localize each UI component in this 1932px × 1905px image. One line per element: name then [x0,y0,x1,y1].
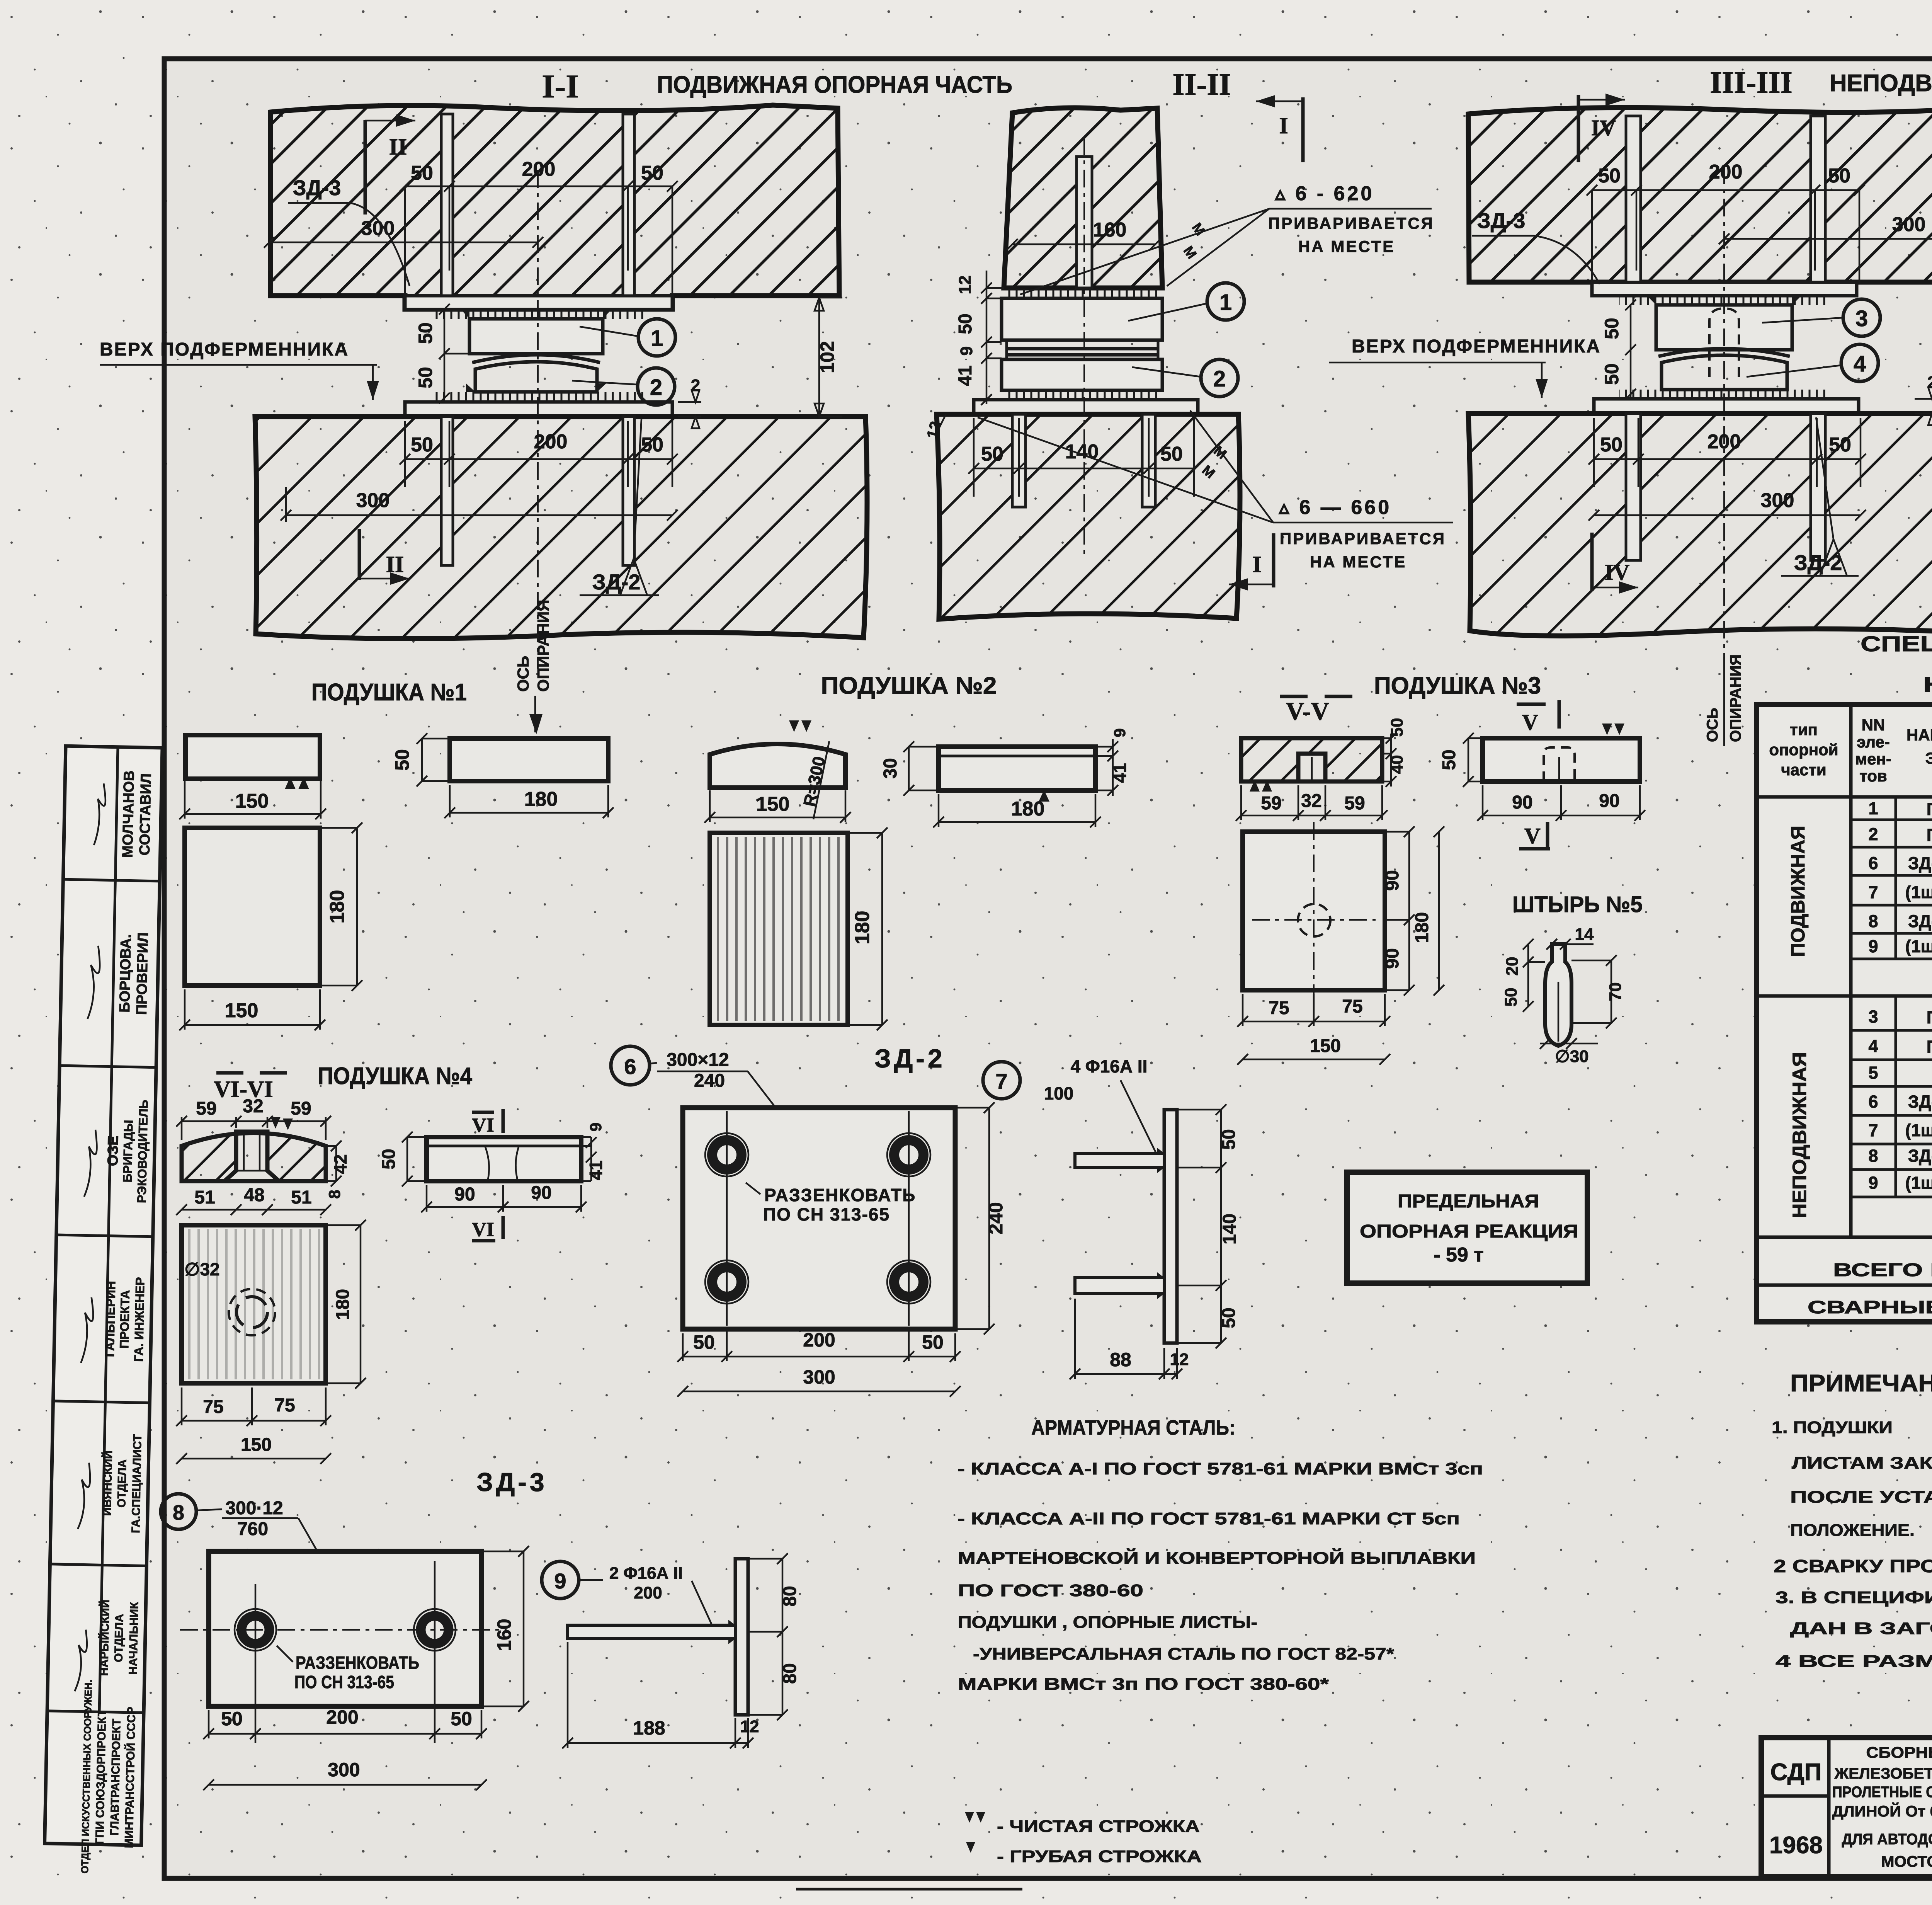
svg-text:АРМАТУРНАЯ СТАЛЬ:: АРМАТУРНАЯ СТАЛЬ: [1031,1416,1235,1439]
svg-text:50: 50 [1219,1129,1239,1149]
svg-text:ПО ГОСТ 380-60: ПО ГОСТ 380-60 [958,1581,1143,1600]
ZD-3 dim 160 right [481,1546,529,1712]
svg-text:300: 300 [356,489,390,512]
vsego row [1833,1248,1932,1292]
svg-text:VI: VI [472,1219,494,1241]
pad2 thin view dims 9 41 [1095,728,1130,796]
svg-text:ИВЯНСКИЙ: ИВЯНСКИЙ [100,1450,115,1516]
II-II weld note top 6-620 [1020,182,1434,295]
VI-VI hatched arched section [182,1117,326,1181]
svg-text:СПЕЦИФИКАЦИЯ И ВЫБОРКА МЕТА: СПЕЦИФИКАЦИЯ И ВЫБОРКА МЕТАЛЛА [1861,632,1932,656]
svg-text:2: 2 [691,376,700,395]
I-I lower concrete block (hatched) [255,417,867,638]
stamp cell gl inzhener [103,1277,147,1362]
svg-text:(1шт): (1шт) [1905,1120,1932,1140]
ZD-2 plate plan [683,1108,955,1329]
svg-text:ГА. ИНЖЕНЕР: ГА. ИНЖЕНЕР [131,1277,147,1362]
svg-text:6: 6 [624,1054,636,1079]
I-I balloon 2 [572,368,675,405]
svg-text:IV: IV [1605,560,1630,585]
item7 dims 88 12 bottom [1070,1299,1189,1379]
svg-text:▵ 6 — 660: ▵ 6 — 660 [1278,496,1391,519]
svg-text:59: 59 [1261,793,1281,814]
svg-text:50: 50 [1598,165,1621,187]
svg-text:1968: 1968 [1769,1832,1823,1859]
III-III axis of bearing rotated label [1704,654,1744,746]
svg-text:ЗД-2: ЗД-2 [1908,853,1932,873]
svg-text:9: 9 [1111,728,1129,737]
svg-text:опорной: опорной [1769,741,1838,759]
III-III embedded plate ZD-3 [1592,282,1857,305]
II-II anchor rod lower left [1012,414,1026,507]
svg-text:50: 50 [981,443,1003,465]
svg-text:50: 50 [411,434,433,456]
shtyr dim 70 right [1571,955,1625,1028]
I-I top dimension chain 50 200 50 [400,158,678,298]
svg-text:51: 51 [291,1187,311,1208]
svg-text:ДАН В ЗАГОТОВКЕ.: ДАН В ЗАГОТОВКЕ. [1790,1619,1932,1638]
svg-text:ВЕРХ ПОДФЕРМЕННИКА: ВЕРХ ПОДФЕРМЕННИКА [100,339,349,360]
pad2 thin view dim 30 [880,741,939,796]
I-I vertical dims 50 50 pads [415,304,469,403]
ZD-3 dims 50 200 50 [203,1706,487,1743]
pad2 thin view dim 180 [933,794,1101,827]
svg-text:50: 50 [1439,749,1459,770]
svg-text:- КЛАССА А-I ПО ГОСТ 578: - КЛАССА А-I ПО ГОСТ 5781-61 МАРКИ ВМСт … [957,1459,1483,1478]
svg-text:200: 200 [803,1329,835,1351]
svg-text:90: 90 [454,1184,475,1205]
III-III label ZD-2 with flag [1781,417,1859,576]
svg-text:50: 50 [1219,1307,1239,1328]
svg-text:40: 40 [1388,755,1406,774]
III-III curved interface [1658,349,1790,356]
svg-text:50: 50 [1600,434,1622,456]
svg-text:- КЛАССА А-II ПО ГОСТ 57: - КЛАССА А-II ПО ГОСТ 5781-61 МАРКИ СТ 5… [957,1509,1460,1528]
pad2 plan view (streaked) [710,833,848,1025]
svg-text:ЗД-3: ЗД-3 [1908,1146,1932,1166]
stamp cell rukovoditel [104,1099,150,1204]
pad2 plan dim 180 [848,827,888,1030]
limit reaction box [1347,1172,1587,1283]
I-I right dim 102 [815,298,842,417]
svg-text:РАЗЗЕНКОВАТЬ: РАЗЗЕНКОВАТЬ [296,1653,419,1673]
note 1 line 1 with balloons [1772,1408,1932,1438]
III-III section mark IV bottom [1592,533,1638,594]
item9 weld triangles [728,1620,735,1644]
svg-text:СОСТАВИЛ: СОСТАВИЛ [137,773,155,856]
svg-text:41: 41 [1110,763,1130,783]
I-I embedded plate ZD-3 under upper block [405,296,672,319]
svg-text:760: 760 [237,1519,268,1539]
svg-text:эле-: эле- [1857,733,1890,751]
svg-text:300: 300 [328,1759,360,1781]
svg-text:2: 2 [650,375,662,400]
svg-text:300: 300 [1892,213,1926,236]
svg-text:НЕПОДВИЖНАЯ: НЕПОДВИЖНАЯ [1789,1052,1810,1218]
svg-text:БОРЦОВА.: БОРЦОВА. [117,934,134,1013]
svg-text:8: 8 [1868,1146,1878,1166]
svg-text:200: 200 [1708,431,1741,453]
svg-text:4 ВСЕ РАЗМЕРЫ В ММ.: 4 ВСЕ РАЗМЕРЫ В ММ. [1776,1652,1932,1671]
pad1 side view B [450,739,608,781]
VI-VI dims 59 32 59 top [176,1096,331,1140]
svg-text:ПОДУШКА №1: ПОДУШКА №1 [311,679,467,706]
item7 weld triangles [1157,1148,1164,1299]
II-II lower concrete block (hatched) [937,414,1240,619]
svg-text:- ГРУБАЯ СТРОЖКА: - ГРУБАЯ СТРОЖКА [997,1847,1202,1866]
pad3 V-V hatched section [1241,738,1382,792]
svg-text:1: 1 [1868,798,1878,818]
svg-text:50: 50 [391,749,413,771]
svg-text:8: 8 [325,1190,344,1198]
svg-text:(1шт): (1шт) [1905,882,1932,902]
I-I weld serration above lower plate [431,392,647,402]
svg-text:9: 9 [587,1122,605,1131]
svg-text:ДЛЯ АВТОДОРОЖНЫХ: ДЛЯ АВТОДОРОЖНЫХ [1842,1831,1932,1848]
pad3 plan view [1243,822,1385,1021]
svg-text:300: 300 [1761,489,1794,512]
I-I section mark II bottom [359,529,410,585]
svg-text:∅32: ∅32 [184,1259,219,1279]
svg-text:50: 50 [1828,165,1850,187]
svg-text:ПОЛОЖЕНИЕ.: ПОЛОЖЕНИЕ. [1790,1521,1915,1540]
svg-text:ПРОЕКТА: ПРОЕКТА [117,1290,132,1349]
svg-text:88: 88 [1110,1349,1131,1370]
III-III balloon 4 [1747,344,1878,381]
svg-text:I: I [1279,113,1288,138]
svg-text:ЗД-3: ЗД-3 [1477,208,1526,233]
svg-text:ПРИВАРИВАЕТСЯ: ПРИВАРИВАЕТСЯ [1280,529,1446,548]
svg-text:160: 160 [493,1619,515,1651]
svg-text:140: 140 [1065,441,1099,463]
svg-text:75: 75 [1269,998,1289,1018]
I-I axis of bearing rotated label [514,600,552,734]
svg-text:ОПОРНАЯ РЕАКЦИЯ: ОПОРНАЯ РЕАКЦИЯ [1360,1221,1578,1242]
item9 dim 80 80 right [748,1553,800,1720]
svg-text:59: 59 [1344,793,1365,814]
I-I label top of pier text [100,339,379,400]
I-I upper concrete block (hatched) [270,105,839,309]
I-I balloon 1 [580,319,675,356]
svg-text:ЗД-3: ЗД-3 [1908,911,1932,931]
svg-text:ОСЬ: ОСЬ [514,656,532,692]
svg-text:140: 140 [1219,1214,1240,1244]
svg-text:150: 150 [235,790,269,812]
svg-text:ПОДУШКА №4: ПОДУШКА №4 [318,1063,472,1090]
svg-text:160: 160 [1093,219,1127,241]
svg-text:- ЧИСТАЯ СТРОЖКА: - ЧИСТАЯ СТРОЖКА [997,1817,1200,1836]
svg-text:4: 4 [1868,1036,1878,1056]
ZD-3 washer right [414,1609,456,1651]
svg-text:50: 50 [1601,318,1622,339]
spec header texts [1769,716,1932,793]
svg-text:50: 50 [415,367,436,388]
pad3 side view dims 90 90 [1477,785,1645,821]
III-III bearing pad 4 [1662,355,1787,390]
svg-text:2: 2 [1927,373,1932,392]
I-I bearing pad 1 [461,310,611,354]
II-II balloon 2 [1132,359,1238,397]
svg-text:II: II [386,552,404,577]
pad3 plan dims 90 90 180 [1382,826,1444,996]
svg-text:240: 240 [694,1071,725,1091]
svg-text:180: 180 [326,890,349,924]
svg-text:БРИГАДЫ: БРИГАДЫ [120,1120,135,1183]
svg-text:100: 100 [1044,1083,1074,1103]
svg-text:32: 32 [1301,791,1321,811]
I-I label ZD-3 with leader [288,175,410,286]
svg-text:ГАЛЬПЕРИН: ГАЛЬПЕРИН [103,1281,118,1357]
III-III vertical dims 50 50 [1601,300,1636,400]
svg-text:50: 50 [451,1708,472,1730]
VI-VI dim 42 right [326,1141,350,1187]
svg-text:▵ 6 - 620: ▵ 6 - 620 [1274,182,1374,205]
svg-text:59: 59 [291,1098,311,1119]
ZD-2 washer top-right [887,1133,930,1176]
svg-text:СДП: СДП [1770,1759,1822,1786]
II-II centerline [1083,137,1085,557]
pad2 curved side view [710,720,845,819]
ZD-3 plate plan [180,1551,507,1739]
II-II anchor rod in column [1077,157,1092,288]
I-I anchor rod right lower [623,417,634,565]
III-III section mark IV top [1578,94,1625,162]
svg-text:50: 50 [693,1331,715,1353]
I-I weld dots pad2 [466,383,606,392]
ZD-2 dims 50 200 50 [677,1329,961,1362]
svg-text:ПОДВИЖНАЯ: ПОДВИЖНАЯ [1787,826,1809,957]
svg-text:∅30: ∅30 [1555,1047,1588,1066]
pad3 side view V markers [1517,700,1559,849]
svg-text:1. ПОДУШКИ: 1. ПОДУШКИ [1772,1418,1893,1437]
svg-text:102: 102 [816,341,838,373]
svg-text:V-V: V-V [1286,697,1329,725]
svg-text:90: 90 [531,1183,551,1203]
III-III upper concrete block (hatched) [1468,106,1932,282]
svg-text:- 59 т: - 59 т [1434,1244,1484,1266]
svg-text:2 Φ16А II: 2 Φ16А II [609,1564,683,1583]
svg-text:1: 1 [651,326,663,351]
spec data rows fixed [1868,1004,1932,1193]
section label VI-VI [214,1073,287,1102]
svg-text:9: 9 [957,346,976,356]
shtyr dims 20 50 left [1502,939,1545,1012]
III-III anchor rod right lower [1811,414,1825,560]
svg-text:2 СВАРКУ ПРОИЗВОДИТЬ ЭЛЕКТРО: 2 СВАРКУ ПРОИЗВОДИТЬ ЭЛЕКТРОДАМИ Э42А по… [1774,1556,1932,1576]
svg-text:48: 48 [244,1185,264,1205]
I-I vertical centerline [537,170,539,669]
ZD-2 washer bottom-left [705,1260,748,1304]
svg-text:180: 180 [524,788,558,810]
II-II bottom dim chain 50 140 50 [968,418,1199,497]
svg-text:II-II: II-II [1172,68,1231,102]
svg-text:V: V [1524,823,1541,848]
item9 rod [568,1625,735,1639]
svg-text:50: 50 [1601,363,1622,385]
svg-text:50: 50 [1160,443,1183,465]
spec table grid [1757,705,1932,1322]
svg-text:ЗД-2: ЗД-2 [1908,1092,1932,1112]
III-III dim 300 lower [1588,489,1866,521]
balloon 6 with size label [611,1046,801,1140]
I-I dimension 300 upper [264,217,543,271]
svg-text:НАИМЕНОВАНИЕ: НАИМЕНОВАНИЕ [1906,726,1932,744]
svg-text:I-I: I-I [542,68,579,105]
svg-text:5: 5 [1868,1063,1878,1083]
svg-text:(1шт): (1шт) [1905,1173,1932,1193]
pad4 dims 41 9 right [581,1122,606,1181]
stamp cell dividers [47,746,162,1713]
item7 dim chain 50 140 50 right [1177,1104,1240,1348]
svg-text:ДЛИНОЙ От 6 до 21 м: ДЛИНОЙ От 6 до 21 м [1832,1802,1932,1820]
title block grid [1761,1738,1932,1876]
svg-text:ШТЫРЬ №5: ШТЫРЬ №5 [1512,892,1643,917]
svg-text:ЗД-2: ЗД-2 [592,570,641,594]
svg-text:ПОДУШКА: ПОДУШКА [1927,799,1932,819]
svg-text:9: 9 [554,1569,566,1593]
svg-text:30: 30 [880,758,901,778]
pad1 plan dim 150 bottom [179,989,325,1030]
ZD-2 washer bottom-right [887,1260,930,1304]
svg-text:ЗД-3: ЗД-3 [476,1467,548,1497]
svg-text:14: 14 [1575,925,1594,944]
svg-text:200: 200 [522,158,556,180]
svg-text:75: 75 [274,1395,295,1416]
item9 dims 188 12 bottom [562,1642,759,1748]
svg-text:32: 32 [243,1096,263,1117]
ZD-2 countersink note [746,1183,916,1224]
svg-text:2: 2 [1213,366,1226,392]
III-III anchor rod right upper [1811,116,1825,282]
balloon 7 anchor detail [983,1056,1159,1159]
svg-text:НА ОДНУ БАЛКУ: НА ОДНУ БАЛКУ [1923,672,1932,696]
II-II bearing pad 1 side [1002,298,1162,340]
svg-text:12: 12 [1170,1350,1189,1369]
pad1 side B dim 50 [391,733,450,787]
pad1 side view A [185,735,320,789]
ZD-3 washer left [235,1609,276,1651]
svg-text:150: 150 [225,999,259,1022]
svg-text:НЕПОДВИЖНАЯ ОПОРНАЯ ЧАСТЬ: НЕПОДВИЖНАЯ ОПОРНАЯ ЧАСТЬ [1830,70,1932,97]
svg-text:III-III: III-III [1710,66,1792,100]
III-III bearing pad 3 [1648,296,1801,350]
svg-text:240: 240 [985,1202,1007,1234]
svg-text:ЛИСТАМ ЗАКЛАДНЫХ ДЕТАЛ: ЛИСТАМ ЗАКЛАДНЫХ ДЕТАЛЕЙ (ЗД-2 ; ЗД-3) [1792,1453,1932,1473]
stamp cell sostavil [120,770,155,858]
svg-text:ОТДЕЛА: ОТДЕЛА [112,1614,126,1662]
title block SDP year [1769,1759,1823,1859]
ZD-3 dim 300 [203,1759,487,1790]
ZD-3 countersink note [277,1646,419,1692]
svg-text:НА МЕСТЕ: НА МЕСТЕ [1298,237,1395,255]
svg-text:МАРТЕНОВСКОЙ И КОНВЕРТОРНО: МАРТЕНОВСКОЙ И КОНВЕРТОРНОЙ ВЫПЛАВКИ [958,1548,1476,1568]
finishing legend line 1 [965,1812,1200,1836]
svg-text:3. В СПЕЦИФИКАЦИИ ВЕС ЭЛ: 3. В СПЕЦИФИКАЦИИ ВЕС ЭЛЕМЕНТОВ [1776,1588,1932,1607]
svg-text:ПРИВАРИВАЕТСЯ: ПРИВАРИВАЕТСЯ [1268,214,1434,232]
svg-text:70: 70 [1606,982,1625,1001]
item7 upper rod [1075,1153,1164,1168]
svg-text:МОСТОВ: МОСТОВ [1881,1853,1932,1870]
III-III top of pier label [1329,336,1601,398]
I-I anchor rod right upper [623,114,634,296]
III-III lower plate [1594,399,1859,414]
svg-text:VI: VI [472,1114,494,1136]
shtyr dim 14 [1546,925,1594,950]
svg-text:150: 150 [756,793,790,815]
section label V-V [1280,696,1352,725]
III-III dim 300 upper [1719,213,1932,271]
svg-text:300·12: 300·12 [225,1498,283,1519]
svg-text:6: 6 [1868,853,1878,873]
svg-text:50: 50 [415,322,436,344]
svg-text:80: 80 [780,1663,800,1684]
II-II laminated strips [1007,340,1158,359]
balloon 9 anchor detail [542,1561,713,1627]
svg-text:мен-: мен- [1855,750,1891,768]
ZD-2 dim 240 right [955,1102,1007,1335]
stray scan line bottom center [796,1888,1022,1891]
svg-text:200: 200 [1709,161,1743,183]
svg-text:3: 3 [1868,1007,1878,1027]
svg-text:80: 80 [780,1586,800,1606]
svg-text:180: 180 [851,911,874,945]
pad1 plan dim 180 right [320,822,362,991]
svg-text:4: 4 [1854,351,1866,376]
svg-text:7: 7 [1868,1120,1878,1140]
stamp cell nachalnik [97,1600,141,1677]
III-III lower concrete block (hatched) [1468,414,1932,636]
svg-text:тип: тип [1790,720,1818,739]
pad4 plan dim 180 right [326,1220,366,1389]
svg-text:200: 200 [534,431,568,453]
svg-text:ПОСЛЕ УСТАНОВКИ БАЛОК В: ПОСЛЕ УСТАНОВКИ БАЛОК В ПРОЕКТНОЕ [1790,1488,1932,1507]
svg-text:ПРОВЕРИЛ: ПРОВЕРИЛ [134,932,151,1015]
II-II lower plate [974,400,1198,414]
svarnye row [1808,1297,1932,1318]
svg-text:ОПИРАНИЯ: ОПИРАНИЯ [534,600,552,692]
stamp cell organization [79,1679,139,1874]
svg-text:СБОРНЫЕ: СБОРНЫЕ [1866,1744,1932,1761]
svg-text:ПО СН 313-65: ПО СН 313-65 [294,1672,394,1692]
svg-text:тов: тов [1859,767,1887,785]
shtyr dim d30 [1540,1038,1598,1066]
svg-text:50: 50 [955,313,976,334]
svg-text:ПОДУШКА: ПОДУШКА [1927,825,1932,845]
svg-text:ЭЛЕМЕНТОВ: ЭЛЕМЕНТОВ [1925,749,1932,767]
III-III centerline [1723,166,1725,657]
II-II anchor rod lower right [1142,414,1155,507]
svg-text:200: 200 [634,1583,662,1602]
svg-text:ПРОЛЕТНЫЕ СТРОЕНИЯ: ПРОЛЕТНЫЕ СТРОЕНИЯ [1832,1784,1932,1801]
svg-text:90: 90 [1382,870,1403,890]
svg-text:IV: IV [1591,115,1616,140]
svg-text:12: 12 [740,1717,759,1736]
I-I small dim 2 [678,376,701,428]
III-III small dim 2 [1915,373,1932,425]
svg-text:I: I [1252,552,1261,577]
svg-text:200: 200 [326,1706,358,1728]
svg-text:75: 75 [203,1397,223,1417]
svg-text:180: 180 [1011,798,1045,820]
svg-text:НАРЫЙСКИЙ: НАРЫЙСКИЙ [97,1600,112,1676]
svg-text:4 Φ16А II: 4 Φ16А II [1071,1056,1148,1076]
pad3 V-V dims 50 40 right [1382,718,1406,787]
III-III balloon 3 [1762,299,1880,336]
svg-text:150: 150 [1310,1036,1341,1056]
II-II section mark I top [1256,95,1303,162]
pad4 side view [427,1137,581,1181]
svg-text:188: 188 [633,1717,665,1739]
